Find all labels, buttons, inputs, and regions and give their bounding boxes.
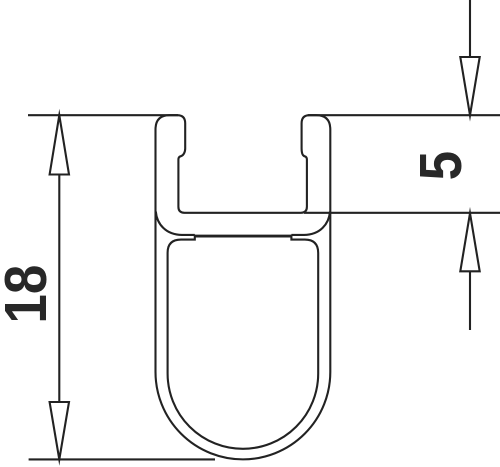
extension line top (y=115, left of profile) [28, 114, 178, 116]
dimension 18: arrow up [50, 115, 69, 174]
profile outer silhouette (U-channel tabs + bulb outer wall) [156, 115, 331, 459]
dimension 5: arrow up [460, 213, 479, 271]
dimension 18: vertical line [58, 175, 60, 403]
extension line bottom (y=459) [29, 458, 215, 460]
channel web bottom sweep left [156, 212, 195, 235]
bulb inner outline with shoulder steps [168, 235, 319, 449]
bulb/web contact line (middle) [194, 235, 292, 238]
dimension 5: upper line [469, 0, 471, 57]
dimension 5: arrow down [460, 57, 479, 115]
svg-text:18: 18 [0, 265, 58, 324]
extension line middle right (y=213, to image edge) [304, 212, 500, 214]
channel web bottom sweep right [291, 212, 330, 235]
svg-text:5: 5 [407, 151, 473, 180]
extension line top right (y=115, to image edge) [308, 114, 500, 116]
dimension 18: arrow down [50, 402, 69, 459]
dimension 5: lower line [469, 271, 471, 330]
